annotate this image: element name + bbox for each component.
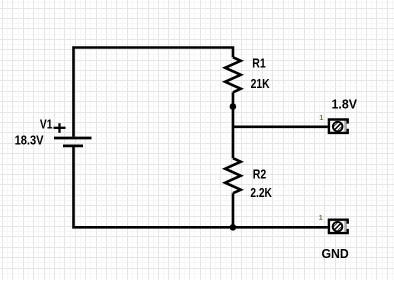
wire: junction node down to R2 top [232, 107, 235, 159]
svg-text:1.8V: 1.8V [332, 97, 358, 112]
svg-text:GND: GND [322, 246, 349, 261]
wire: R2 bottom lead to bottom rail [232, 193, 235, 227]
wire: branch to 1.8V port [233, 126, 328, 129]
wire: top rail from battery top to R1 top [74, 48, 234, 137]
svg-text:R2: R2 [253, 167, 267, 182]
resistor R2 [225, 158, 241, 193]
wire: R1 bottom lead to junction node [232, 92, 235, 106]
battery V1 top plate [54, 137, 92, 140]
svg-text:21K: 21K [251, 76, 270, 91]
port connector GND [329, 220, 348, 234]
junction node dot between R1 and R2 [230, 103, 237, 110]
svg-text:R1: R1 [252, 56, 266, 71]
junction node dot on bottom rail [230, 224, 237, 231]
plus polarity mark [54, 123, 66, 133]
resistor R1 [225, 57, 241, 92]
svg-text:2.2K: 2.2K [250, 185, 272, 200]
svg-text:1: 1 [319, 213, 323, 222]
svg-text:18.3V: 18.3V [15, 133, 44, 148]
wire: battery bottom to bottom rail and across to GND port [74, 146, 328, 227]
battery V1 bottom plate [63, 145, 83, 148]
svg-text:1: 1 [319, 113, 323, 122]
port connector 1.8V [329, 120, 348, 134]
svg-text:V1: V1 [40, 117, 53, 132]
